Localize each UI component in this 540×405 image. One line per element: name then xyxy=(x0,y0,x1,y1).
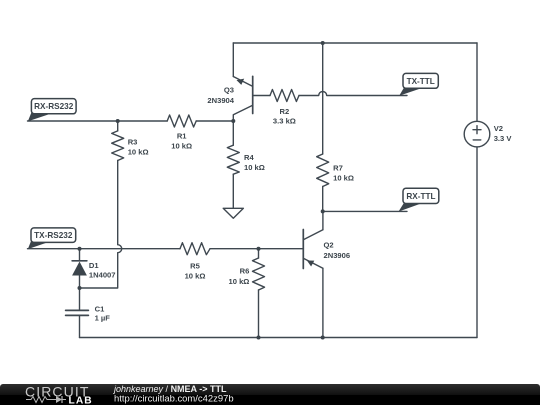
transistor Q3 emitter slant xyxy=(233,77,252,87)
svg-text:Q3: Q3 xyxy=(224,86,234,95)
svg-text:johnkearney / NMEA -> TTL: johnkearney / NMEA -> TTL xyxy=(113,384,227,394)
svg-text:C1: C1 xyxy=(95,305,105,314)
logo zigzag doodle xyxy=(26,396,66,403)
node dot Q2 emitter bottom xyxy=(321,336,325,340)
svg-text:TX-TTL: TX-TTL xyxy=(407,77,435,86)
svg-text:D1: D1 xyxy=(89,261,99,270)
transistor Q2 collector slant xyxy=(303,230,323,240)
ground symbol xyxy=(223,208,243,218)
V2 plus sign xyxy=(473,126,481,134)
wire R4 bottom lead xyxy=(232,174,234,208)
wire R6 top lead xyxy=(258,249,260,258)
wire R5 to Q2 base xyxy=(210,248,303,250)
wire R4 top lead xyxy=(232,121,234,145)
wire R6 bottom lead xyxy=(258,290,260,338)
node dot D1 top xyxy=(78,247,82,251)
node dot D1 bottom xyxy=(78,286,82,290)
flag RX-TTL xyxy=(399,188,439,211)
transistor Q3 collector slant xyxy=(233,105,252,121)
svg-text:1N4007: 1N4007 xyxy=(89,271,116,280)
svg-text:R3: R3 xyxy=(128,138,138,147)
svg-text:RX-TTL: RX-TTL xyxy=(406,192,435,201)
svg-text:R5: R5 xyxy=(190,262,200,271)
svg-text:10 kΩ: 10 kΩ xyxy=(229,277,250,286)
node dot R6 top xyxy=(257,247,261,251)
node dot top rail xyxy=(321,41,325,45)
Q3 emitter arrow xyxy=(237,79,245,85)
wire Q3 base to R2 xyxy=(253,95,270,97)
wire D1 top lead xyxy=(79,249,81,260)
resistor R1 xyxy=(167,115,196,127)
flag TX-RS232 xyxy=(28,228,76,249)
resistor R7 xyxy=(317,154,329,187)
wire Q2 collector vertical xyxy=(322,211,324,229)
svg-text:RX-RS232: RX-RS232 xyxy=(34,102,74,111)
wire R1 to Q3 node xyxy=(196,120,233,122)
wire Q3 emitter vertical xyxy=(232,43,234,77)
svg-text:3.3 V: 3.3 V xyxy=(494,134,513,143)
flag TX-TTL xyxy=(399,73,438,95)
wire D1 bottom lead xyxy=(79,276,81,289)
wire RX-RS232 to R1 xyxy=(28,120,168,122)
svg-text:Q2: Q2 xyxy=(324,241,334,250)
node dot R3 top xyxy=(116,119,120,123)
transistor Q2 body xyxy=(302,230,304,269)
svg-text:R2: R2 xyxy=(280,107,290,116)
svg-text:R6: R6 xyxy=(240,266,250,275)
wire mid rail upper (node to R7) xyxy=(322,43,324,154)
svg-text:V2: V2 xyxy=(494,124,503,133)
wire R3 bottom with hop over TX wire xyxy=(80,161,122,289)
V2 minus sign xyxy=(473,139,481,141)
transistor Q3 body xyxy=(252,76,254,113)
transistor Q2 emitter slant xyxy=(303,258,323,268)
wire C1 top lead xyxy=(79,288,81,310)
wire right rail upper (to V2) xyxy=(476,43,478,121)
Q2 emitter arrow xyxy=(307,261,314,267)
diode D1 cathode bar xyxy=(72,260,87,262)
wire TX-RS232 to R5 xyxy=(28,248,181,250)
wire RX-TTL node to flag xyxy=(323,210,407,212)
node dot Q3 base node xyxy=(231,119,235,123)
svg-text:LAB: LAB xyxy=(69,396,93,405)
wire R3 top lead xyxy=(117,121,119,131)
node dot RX-TTL xyxy=(321,209,325,213)
svg-text:2N3904: 2N3904 xyxy=(207,96,234,105)
svg-text:http://circuitlab.com/c42z97b: http://circuitlab.com/c42z97b xyxy=(114,394,234,405)
wire R7 to RX-TTL node xyxy=(322,187,324,212)
wire Q2 emitter vertical xyxy=(322,268,324,337)
svg-text:R1: R1 xyxy=(177,131,187,140)
flag RX-RS232 xyxy=(28,99,76,122)
voltage source V2 circle xyxy=(464,121,490,147)
wire right rail lower (V2 to bottom) xyxy=(476,147,478,338)
resistor R5 xyxy=(180,243,210,255)
diode D1 triangle xyxy=(72,262,87,276)
svg-text:3.3 kΩ: 3.3 kΩ xyxy=(273,117,296,126)
svg-text:R4: R4 xyxy=(244,153,254,162)
svg-text:10 kΩ: 10 kΩ xyxy=(128,147,149,156)
svg-text:2N3906: 2N3906 xyxy=(324,251,351,260)
resistor R4 xyxy=(227,145,239,174)
resistor R3 xyxy=(112,131,124,161)
svg-text:10 kΩ: 10 kΩ xyxy=(171,142,192,151)
wire top rail xyxy=(233,42,477,44)
svg-text:1 µF: 1 µF xyxy=(95,313,111,322)
wire C1 bottom lead xyxy=(79,316,81,338)
wire R2 to TX-TTL with hop over rail xyxy=(299,92,407,96)
svg-text:10 kΩ: 10 kΩ xyxy=(333,173,354,182)
svg-text:10 kΩ: 10 kΩ xyxy=(244,163,265,172)
logo diode doodle xyxy=(56,396,62,403)
svg-text:R7: R7 xyxy=(333,163,343,172)
svg-text:TX-RS232: TX-RS232 xyxy=(34,231,73,240)
resistor R6 xyxy=(253,258,265,290)
wire bottom rail xyxy=(80,337,478,339)
node dot R6 bottom xyxy=(257,336,261,340)
resistor R2 xyxy=(270,90,299,102)
svg-text:10 kΩ: 10 kΩ xyxy=(185,272,206,281)
capacitor C1 plates xyxy=(66,310,89,315)
